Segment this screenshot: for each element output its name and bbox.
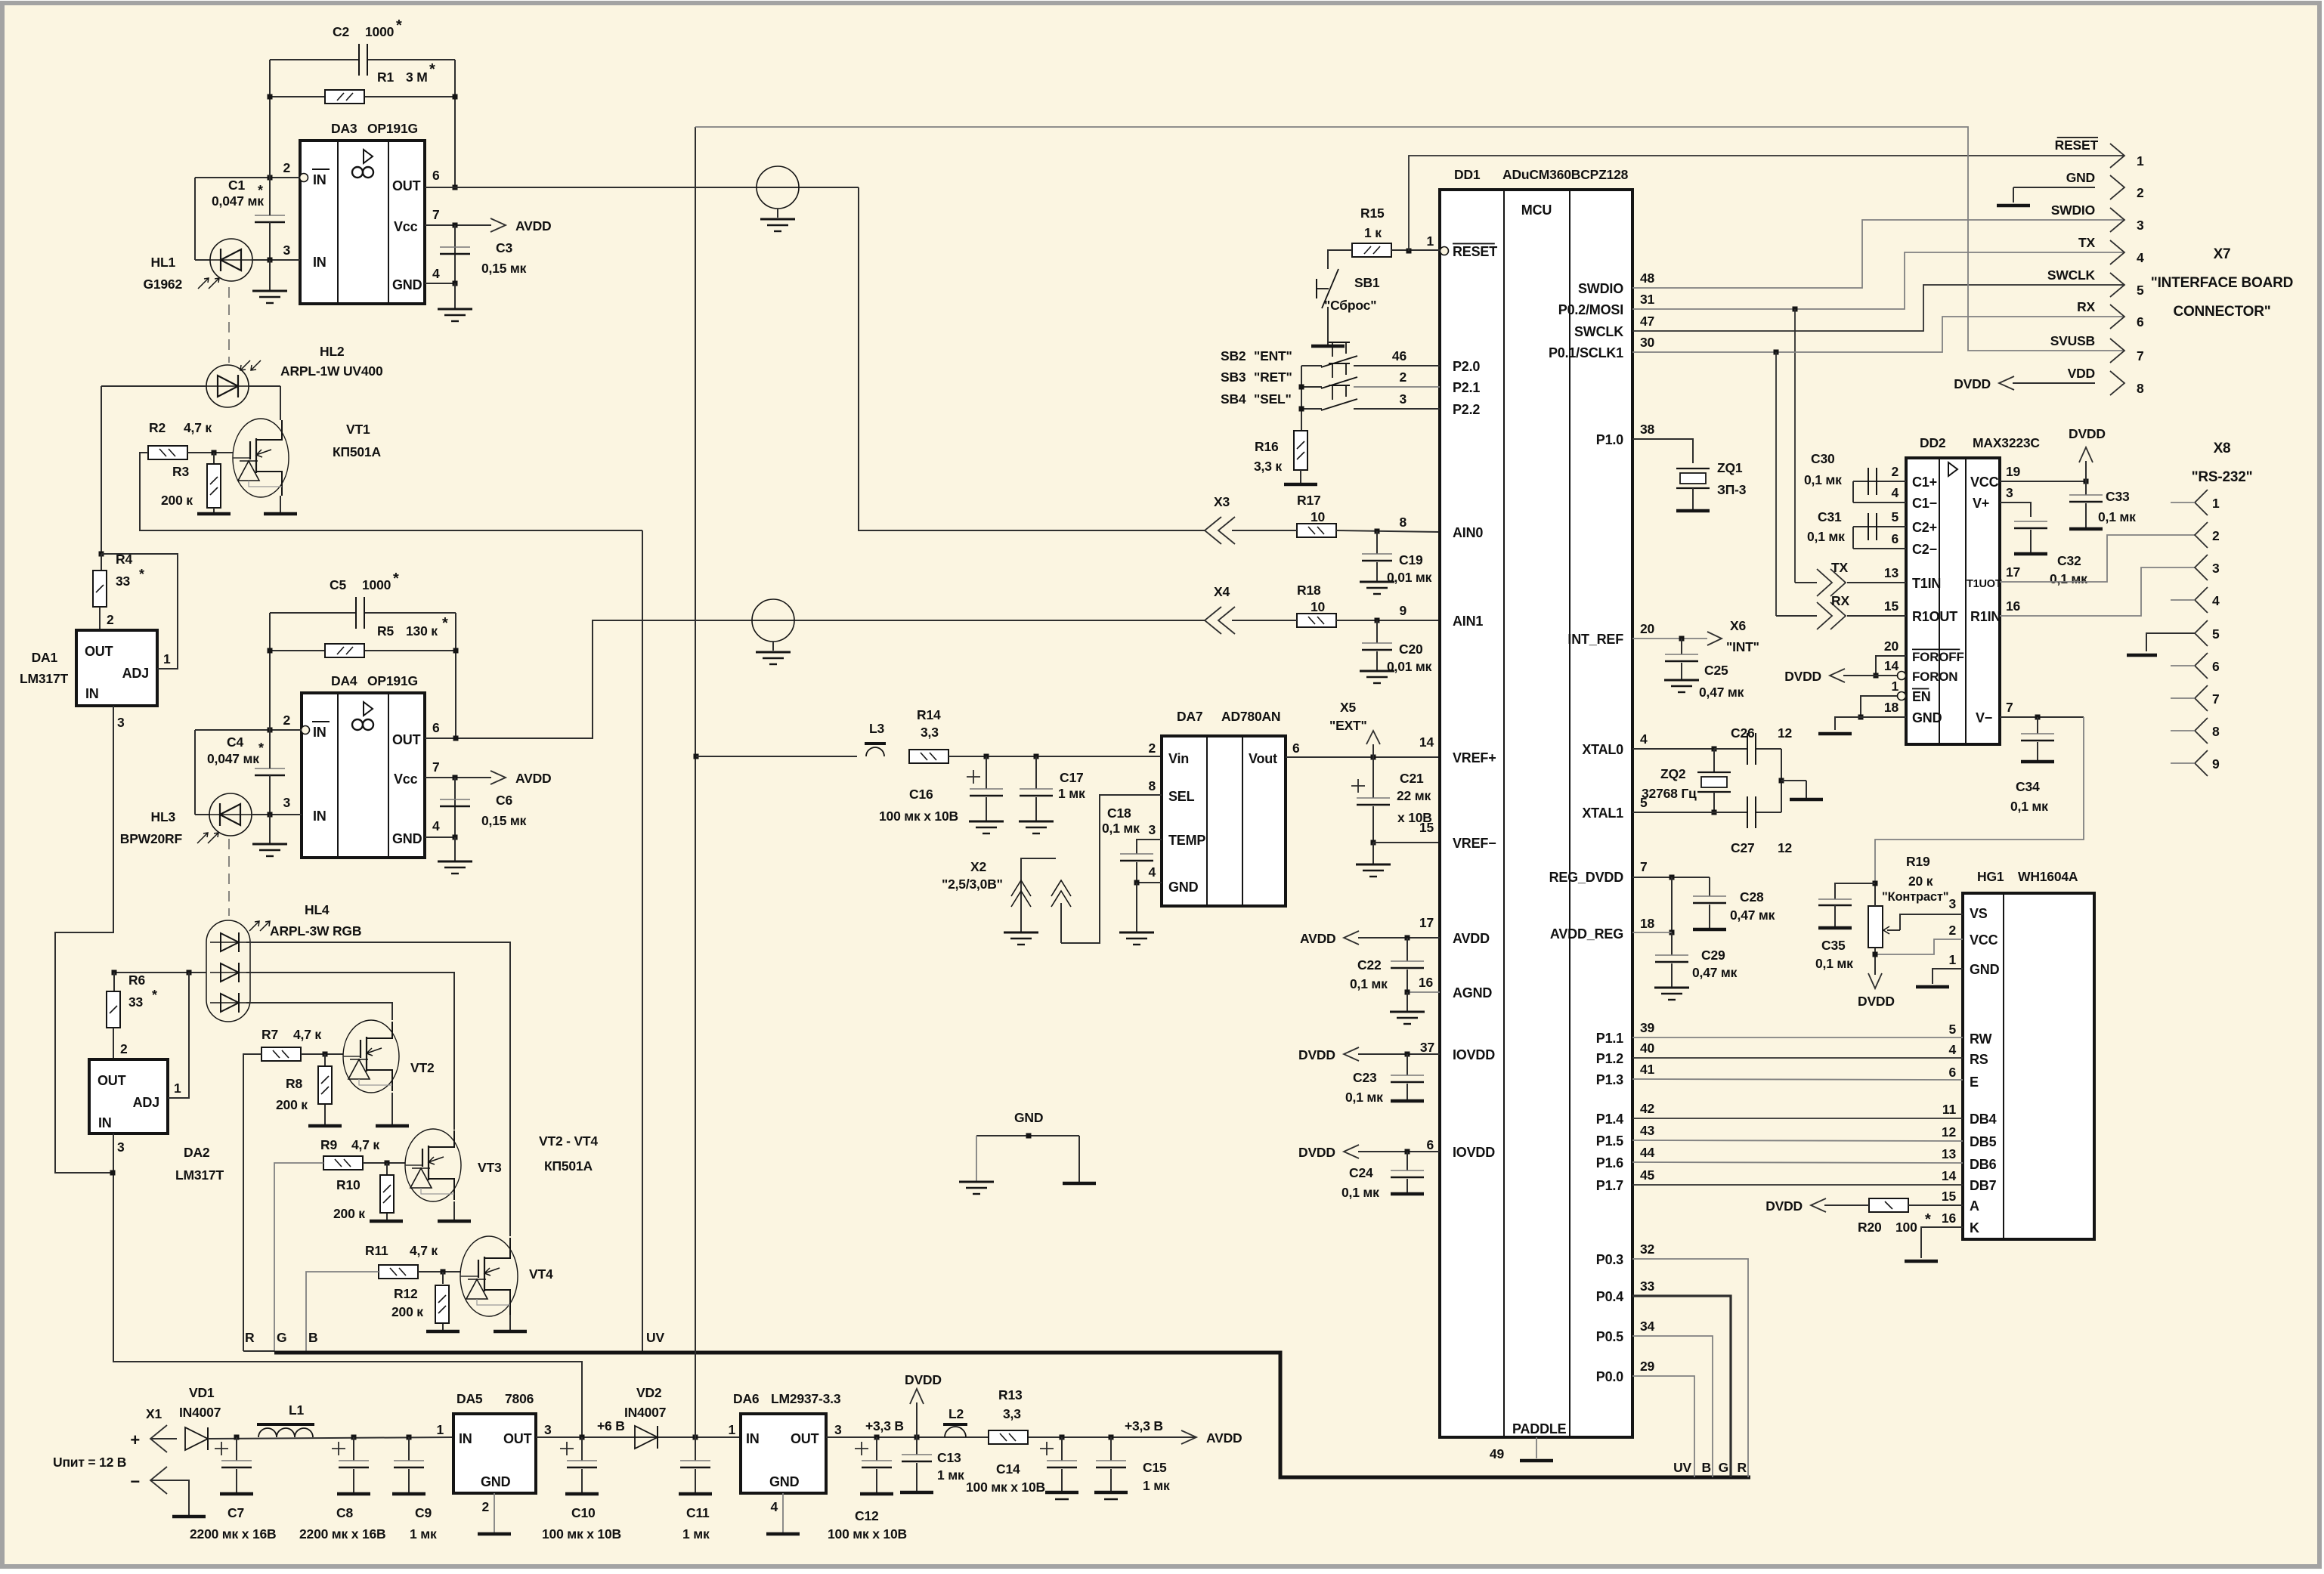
wire HL4 R to VT2 drain: [246, 1003, 392, 1020]
svg-text:16: 16: [1942, 1211, 1957, 1226]
svg-text:4: 4: [1891, 485, 1899, 500]
wire DD2 VCC DVDD: [2000, 481, 2086, 482]
resistor R9: [323, 1156, 363, 1170]
wire DA7 GND: [1137, 882, 1162, 883]
svg-text:0,15 мк: 0,15 мк: [481, 813, 527, 828]
svg-text:P0.2/MOSI: P0.2/MOSI: [1558, 302, 1623, 317]
connector X8 pin 2: [2195, 522, 2208, 548]
capacitor C9: [407, 1435, 412, 1440]
svg-text:3: 3: [1399, 391, 1406, 407]
svg-text:3,3: 3,3: [921, 725, 939, 740]
wire P1.1 to RW: [1632, 1037, 1963, 1038]
svg-text:OUT: OUT: [392, 732, 421, 747]
svg-text:C20: C20: [1399, 642, 1423, 657]
svg-text:C32: C32: [2057, 553, 2081, 568]
capacitor C25: [1681, 639, 1682, 654]
svg-text:*: *: [258, 183, 263, 198]
svg-text:R16: R16: [1255, 439, 1279, 454]
capacitor C6: [454, 778, 456, 837]
svg-text:AVDD: AVDD: [1206, 1430, 1242, 1446]
svg-text:15: 15: [1884, 598, 1899, 614]
svg-text:R9: R9: [320, 1137, 337, 1152]
svg-text:R6: R6: [128, 973, 145, 988]
wire VT1 source ground: [280, 496, 281, 514]
svg-text:RESET: RESET: [2055, 138, 2099, 153]
svg-text:7: 7: [2212, 691, 2220, 707]
svg-text:IN4007: IN4007: [179, 1405, 221, 1420]
svg-text:GND: GND: [769, 1474, 800, 1489]
resistor R11: [379, 1265, 418, 1279]
svg-text:"2,5/3,0В": "2,5/3,0В": [942, 877, 1003, 892]
svg-text:C33: C33: [2106, 489, 2130, 504]
svg-text:4,7 к: 4,7 к: [410, 1243, 438, 1258]
svg-text:22 мк: 22 мк: [1397, 788, 1431, 803]
svg-text:DA3: DA3: [331, 121, 357, 136]
svg-text:0,47 мк: 0,47 мк: [1730, 908, 1775, 923]
svg-text:R1IN: R1IN: [1970, 609, 2001, 624]
svg-text:VS: VS: [1970, 906, 1988, 921]
svg-text:0,1 мк: 0,1 мк: [1804, 472, 1842, 487]
svg-text:3: 3: [2006, 485, 2013, 500]
voltage regulator DA5 7806: [453, 1414, 536, 1493]
svg-text:C14: C14: [996, 1461, 1020, 1477]
svg-text:SWDIO: SWDIO: [2051, 203, 2095, 218]
connector X7 pin 5: [2110, 273, 2124, 297]
svg-text:V−: V−: [1976, 710, 1992, 725]
svg-text:20: 20: [1640, 621, 1655, 636]
svg-text:1 мк: 1 мк: [1143, 1478, 1170, 1493]
svg-text:2200 мк x 16В: 2200 мк x 16В: [299, 1526, 385, 1542]
connector X7 pin 6: [2110, 305, 2124, 329]
jumper X5 EXT: [1372, 744, 1374, 757]
svg-text:8: 8: [2212, 724, 2220, 739]
svg-text:P2.0: P2.0: [1453, 359, 1480, 374]
svg-text:SWDIO: SWDIO: [1578, 281, 1623, 296]
svg-text:FORON: FORON: [1912, 669, 1957, 684]
svg-text:37: 37: [1420, 1040, 1434, 1055]
svg-text:100 мк x 10В: 100 мк x 10В: [828, 1526, 907, 1542]
svg-text:DVDD: DVDD: [1765, 1198, 1803, 1214]
svg-text:DVDD: DVDD: [1858, 994, 1895, 1009]
svg-text:46: 46: [1392, 348, 1407, 363]
capacitor C28: [1709, 877, 1710, 896]
wire R gate net: [243, 1054, 261, 1351]
node DA1 top: [99, 552, 104, 557]
svg-text:XTAL1: XTAL1: [1582, 806, 1623, 821]
wire SB common: [1301, 366, 1302, 431]
svg-text:C11: C11: [686, 1505, 710, 1520]
svg-text:C30: C30: [1811, 451, 1835, 466]
svg-text:C10: C10: [571, 1505, 596, 1520]
svg-text:19: 19: [2006, 464, 2021, 479]
svg-text:MCU: MCU: [1521, 203, 1552, 218]
svg-text:6: 6: [1948, 1065, 1956, 1080]
svg-text:3: 3: [1148, 822, 1156, 837]
wire Vin net from SVUSB: [694, 754, 699, 759]
svg-text:4,7 к: 4,7 к: [184, 420, 212, 435]
svg-text:15: 15: [1942, 1189, 1957, 1204]
crystal ZQ1 ZP-3: [1632, 439, 1693, 463]
wire P1.2 to RS: [1632, 1057, 1963, 1059]
svg-text:0,047 мк: 0,047 мк: [212, 193, 264, 209]
potentiometer R19 contrast: [1868, 906, 1883, 948]
svg-text:SWCLK: SWCLK: [1574, 324, 1623, 339]
capacitor C5: [270, 612, 356, 614]
resistor R3: [213, 453, 215, 464]
svg-text:C17: C17: [1060, 770, 1084, 785]
wire HL2 anode feed from DA1: [101, 386, 102, 554]
svg-text:C2−: C2−: [1912, 542, 1937, 557]
svg-text:1: 1: [174, 1081, 181, 1096]
svg-text:AIN0: AIN0: [1453, 525, 1483, 540]
LCD HG1 WH1604A: [1963, 893, 2094, 1239]
svg-text:30: 30: [1640, 335, 1655, 350]
svg-text:GND: GND: [2066, 170, 2095, 185]
svg-text:R15: R15: [1360, 206, 1385, 221]
svg-text:IN: IN: [459, 1431, 472, 1446]
RS232 driver DD2 MAX3223C: [1906, 458, 2000, 744]
svg-text:2: 2: [283, 160, 290, 175]
wire RESET to X7: [1409, 156, 2124, 251]
svg-text:"ENT": "ENT": [1254, 348, 1292, 363]
capacitor C12: [874, 1435, 880, 1440]
node R6 top: [112, 970, 117, 976]
svg-text:X5: X5: [1340, 700, 1356, 715]
svg-text:AVDD: AVDD: [515, 218, 552, 233]
svg-text:16: 16: [2006, 598, 2021, 614]
optical coupling HL3-HL4: [228, 839, 230, 916]
connector X7 pin 4: [2110, 240, 2124, 264]
connector TX inline: [1830, 569, 1846, 596]
svg-text:AVDD: AVDD: [1453, 931, 1490, 946]
resistor R20: [1869, 1198, 1908, 1212]
wire SVUSB vertical: [695, 127, 696, 1437]
capacitor C34: [2037, 717, 2038, 734]
svg-text:1 мк: 1 мк: [682, 1526, 710, 1542]
svg-text:7: 7: [432, 759, 440, 775]
svg-text:14: 14: [1884, 658, 1899, 673]
svg-text:OP191G: OP191G: [367, 121, 418, 136]
svg-text:"RS-232": "RS-232": [2192, 469, 2253, 485]
resistor R15: [1352, 243, 1391, 257]
node +6V: [580, 1435, 585, 1440]
svg-text:T1IN: T1IN: [1912, 576, 1941, 591]
svg-text:VD1: VD1: [189, 1385, 215, 1400]
svg-text:*: *: [393, 571, 399, 587]
op-amp DA4 OP191G: [302, 693, 425, 858]
wire SWCLK to X7: [1632, 285, 2124, 331]
wire R1IN to X8 pin3: [2000, 567, 2195, 616]
svg-text:0,1 мк: 0,1 мк: [1102, 821, 1140, 836]
jumper X6 INT: [1707, 632, 1722, 645]
resistor R17: [1297, 524, 1336, 537]
jumper X2 2,5/3,0V select: [1061, 795, 1162, 943]
svg-text:КП501А: КП501А: [544, 1158, 593, 1174]
voltage regulator DA2 LM317T: [113, 1028, 114, 1059]
svg-text:C1−: C1−: [1912, 496, 1937, 511]
svg-text:R20: R20: [1858, 1220, 1882, 1235]
svg-text:+6 В: +6 В: [597, 1418, 625, 1433]
svg-text:R3: R3: [172, 464, 189, 479]
svg-text:R12: R12: [394, 1286, 418, 1301]
connector X8 pin 3: [2195, 555, 2208, 580]
wire HL2 anode: [101, 385, 206, 387]
svg-text:*: *: [152, 988, 157, 1003]
wire crystal caps common: [1781, 749, 1782, 812]
power flag AVDD (DA4): [490, 771, 506, 784]
ground under C3: [438, 308, 472, 311]
wire feedback right leg DA4: [455, 613, 456, 738]
wire EN to GND: [1861, 696, 1897, 717]
wire HL2 cathode to VT1 drain: [249, 385, 280, 387]
svg-text:C22: C22: [1357, 957, 1382, 973]
svg-text:C2: C2: [333, 24, 349, 39]
pin REG_DVDD wire: [1632, 877, 1710, 878]
ground VT2 source: [391, 1093, 393, 1126]
wire TX net: [1632, 252, 2124, 309]
svg-text:C29: C29: [1701, 948, 1725, 963]
svg-text:X4: X4: [1214, 584, 1230, 599]
svg-text:32768 Гц: 32768 Гц: [1642, 786, 1697, 801]
svg-text:EN: EN: [1912, 689, 1931, 704]
svg-text:C21: C21: [1400, 771, 1424, 786]
svg-text:2: 2: [1891, 464, 1899, 479]
svg-text:130 к: 130 к: [406, 623, 438, 639]
wire P0.5 drop: [1632, 1336, 1713, 1477]
svg-text:FOROFF: FOROFF: [1912, 650, 1964, 664]
svg-text:8: 8: [1399, 515, 1406, 530]
wire DA6 GND pin4: [782, 1493, 784, 1534]
svg-text:5: 5: [1948, 1022, 1956, 1037]
svg-text:GND: GND: [1168, 880, 1199, 895]
power flag DVDD up: [914, 1435, 920, 1440]
node C11 SVUSB: [693, 1435, 698, 1440]
svg-text:GND: GND: [1912, 710, 1942, 725]
ground VT1 source: [264, 512, 297, 516]
svg-text:P0.0: P0.0: [1596, 1369, 1623, 1384]
power flag DVDD FORON: [1830, 669, 1845, 682]
svg-text:1: 1: [1891, 679, 1899, 694]
svg-text:C12: C12: [855, 1508, 879, 1523]
svg-text:REG_DVDD: REG_DVDD: [1549, 870, 1624, 885]
wire SVUSB top: [695, 127, 2124, 351]
svg-text:4,7 к: 4,7 к: [351, 1137, 379, 1152]
svg-text:C4: C4: [227, 734, 243, 750]
svg-text:3: 3: [283, 243, 290, 258]
svg-text:0,1 мк: 0,1 мк: [1341, 1185, 1379, 1200]
capacitor C14: [1060, 1435, 1065, 1440]
svg-text:2: 2: [283, 713, 290, 728]
svg-text:RX: RX: [2077, 299, 2095, 314]
svg-text:C16: C16: [909, 787, 933, 802]
ground under R12: [426, 1330, 460, 1334]
power flag AVDD bottom: [1181, 1430, 1196, 1444]
svg-text:2: 2: [2212, 528, 2220, 543]
svg-text:C18: C18: [1107, 806, 1131, 821]
svg-text:Uпит = 12 В: Uпит = 12 В: [53, 1455, 126, 1470]
svg-text:*: *: [396, 17, 402, 34]
svg-text:L2: L2: [948, 1406, 964, 1421]
svg-text:3: 3: [2137, 218, 2144, 233]
svg-text:100 мк x 10В: 100 мк x 10В: [966, 1480, 1045, 1495]
resistor R8: [324, 1054, 326, 1066]
svg-text:X2: X2: [970, 859, 986, 874]
ground VT4 source: [509, 1315, 511, 1331]
connector X3: [1205, 517, 1221, 544]
pin PADDLE: [1536, 1437, 1537, 1458]
svg-text:HL1: HL1: [151, 255, 176, 270]
svg-text:C19: C19: [1399, 552, 1423, 567]
svg-text:4: 4: [2212, 593, 2220, 608]
svg-text:HL3: HL3: [151, 809, 176, 824]
ground under R8: [308, 1124, 342, 1128]
ground X1 minus: [150, 1480, 189, 1517]
ground under R3: [197, 512, 231, 516]
svg-text:R18: R18: [1297, 583, 1321, 598]
svg-text:2200 мк x 16В: 2200 мк x 16В: [190, 1526, 276, 1542]
connector X8 pin 5: [2195, 620, 2208, 646]
svg-text:2: 2: [107, 612, 114, 627]
svg-text:5: 5: [2212, 626, 2220, 642]
svg-text:+3,3 В: +3,3 В: [1125, 1418, 1163, 1433]
svg-text:6: 6: [432, 720, 440, 735]
wiper R19 to VS: [1900, 914, 1963, 930]
connector X7 pin 8: [2110, 371, 2124, 395]
svg-text:SB3: SB3: [1221, 370, 1246, 385]
svg-text:38: 38: [1640, 422, 1655, 437]
svg-text:0,047 мк: 0,047 мк: [207, 751, 259, 766]
inductor L3: [866, 747, 884, 756]
svg-text:4: 4: [1148, 864, 1156, 880]
svg-text:AD780AN: AD780AN: [1221, 709, 1280, 724]
svg-text:5: 5: [1891, 509, 1899, 524]
connector X1 minus: [150, 1467, 167, 1494]
svg-text:42: 42: [1640, 1101, 1655, 1116]
svg-text:RX: RX: [1831, 593, 1849, 608]
svg-text:P1.3: P1.3: [1596, 1072, 1623, 1087]
svg-text:6: 6: [1292, 741, 1300, 756]
svg-text:3,3 к: 3,3 к: [1254, 459, 1282, 474]
svg-text:КП501А: КП501А: [333, 444, 381, 459]
svg-text:LM317T: LM317T: [175, 1167, 224, 1183]
svg-text:C31: C31: [1818, 509, 1842, 524]
wire AVDD17: [1358, 937, 1440, 939]
wire R2 to UV net: [140, 453, 642, 530]
svg-text:ADuCM360BCPZ128: ADuCM360BCPZ128: [1502, 167, 1629, 182]
capacitor C21: [1372, 757, 1374, 798]
svg-text:DVDD: DVDD: [1954, 376, 1991, 391]
power flag DVDD X7 pin8: [2013, 382, 2095, 384]
svg-text:VT3: VT3: [478, 1160, 502, 1175]
resistor R10: [386, 1163, 388, 1175]
svg-text:DB4: DB4: [1970, 1112, 1997, 1127]
wire DA1 ADJ: [101, 554, 178, 669]
ground under C4: [252, 843, 287, 846]
svg-text:SEL: SEL: [1168, 789, 1195, 804]
svg-text:13: 13: [1884, 565, 1899, 580]
svg-text:200 к: 200 к: [333, 1206, 365, 1221]
capacitor C16: [984, 754, 989, 759]
pin 2 of DA4: [302, 726, 310, 734]
connector X8 pin 9: [2195, 750, 2208, 776]
svg-text:1 мк: 1 мк: [937, 1467, 964, 1483]
wire DA4 Vcc AVDD: [425, 777, 491, 778]
svg-text:TX: TX: [2078, 235, 2095, 250]
capacitor C11: [695, 1437, 696, 1461]
svg-text:DA6: DA6: [733, 1391, 760, 1406]
svg-text:C7: C7: [227, 1505, 244, 1520]
wire V- to contrast pot: [1875, 717, 2084, 907]
svg-text:IOVDD: IOVDD: [1453, 1047, 1495, 1062]
resistor R1: [270, 96, 325, 97]
svg-text:UV: UV: [1673, 1460, 1691, 1475]
wire HG1 VCC: [1875, 939, 1963, 954]
svg-text:ADJ: ADJ: [122, 666, 149, 681]
connector X4: [1205, 607, 1221, 634]
svg-text:0,1 мк: 0,1 мк: [1350, 976, 1388, 991]
svg-text:VT2 - VT4: VT2 - VT4: [539, 1133, 598, 1149]
svg-text:R1OUT: R1OUT: [1912, 609, 1957, 624]
svg-text:6: 6: [432, 168, 440, 183]
svg-text:ZQ1: ZQ1: [1717, 460, 1743, 475]
svg-text:1: 1: [1948, 952, 1956, 967]
svg-text:C8: C8: [336, 1505, 353, 1520]
connector X8 pin 4: [2195, 587, 2208, 613]
svg-text:P1.5: P1.5: [1596, 1133, 1623, 1149]
connector X8 pin 7: [2195, 685, 2208, 711]
svg-text:X1: X1: [146, 1406, 162, 1421]
svg-text:OUT: OUT: [85, 644, 113, 659]
svg-text:C24: C24: [1349, 1165, 1373, 1180]
svg-text:IN4007: IN4007: [624, 1405, 666, 1420]
wire UV gate net vertical: [642, 530, 643, 1351]
connector RX inline: [1830, 602, 1846, 629]
svg-text:C1: C1: [228, 178, 245, 193]
svg-text:10: 10: [1311, 599, 1326, 614]
svg-text:47: 47: [1640, 314, 1654, 329]
svg-text:R19: R19: [1906, 854, 1930, 869]
svg-text:GND: GND: [1970, 962, 2000, 977]
wire DD2 V- C34: [2000, 716, 2084, 718]
op-amp DA3 OP191G: [300, 141, 425, 304]
svg-text:*: *: [258, 741, 264, 756]
svg-text:G1962: G1962: [143, 277, 182, 292]
resistor R4: [101, 554, 102, 571]
svg-text:DVDD: DVDD: [1298, 1145, 1335, 1160]
svg-text:7806: 7806: [505, 1391, 534, 1406]
svg-text:GND: GND: [481, 1474, 511, 1489]
svg-text:0,1 мк: 0,1 мк: [2050, 571, 2087, 586]
svg-text:"RET": "RET": [1254, 370, 1292, 385]
svg-text:2: 2: [120, 1041, 128, 1056]
svg-text:TEMP: TEMP: [1168, 833, 1205, 848]
svg-text:8: 8: [2137, 381, 2144, 396]
svg-text:0,1 мк: 0,1 мк: [1345, 1090, 1383, 1105]
wire DA3 inverting input net: [195, 177, 300, 178]
ground VT3 source: [453, 1201, 455, 1221]
svg-text:L1: L1: [289, 1402, 304, 1418]
capacitor C15: [1109, 1435, 1114, 1440]
svg-text:33: 33: [1640, 1279, 1655, 1294]
capacitor C10: [581, 1437, 583, 1461]
svg-text:15: 15: [1419, 820, 1434, 835]
resistor R7: [261, 1047, 301, 1061]
wire Vout to VREF+: [1286, 756, 1440, 758]
svg-text:200 к: 200 к: [391, 1304, 423, 1319]
svg-text:3,3: 3,3: [1003, 1406, 1021, 1421]
svg-text:18: 18: [1640, 916, 1655, 931]
wire DA4 GND: [425, 836, 455, 838]
